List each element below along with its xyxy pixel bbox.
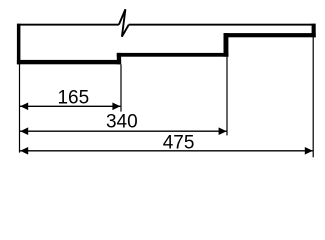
arrowhead 340 left <box>20 127 28 135</box>
dimension line 475 <box>20 150 313 152</box>
arrowhead 165 right <box>112 103 120 111</box>
arrowhead 475 left <box>20 147 28 155</box>
dimension line 340 <box>20 130 227 132</box>
extension line right <box>313 37 314 157</box>
arrowhead 475 right <box>305 147 313 155</box>
bottom thick line segment 1 <box>17 60 121 64</box>
arrowhead 340 right <box>219 127 227 135</box>
extension line at step 1 <box>120 64 121 111</box>
step 2 vertical thick <box>224 33 229 57</box>
svg-text:475: 475 <box>163 132 195 153</box>
right edge thick bar <box>312 24 316 38</box>
break symbol <box>119 9 129 36</box>
top thin line left segment <box>20 24 119 26</box>
top thin line right segment <box>129 24 312 26</box>
dimension line 165 <box>20 105 121 107</box>
extension line left <box>19 64 20 152</box>
step 1 vertical thick <box>117 53 121 64</box>
extension line at step 2 <box>226 57 227 136</box>
bottom thick line segment 2 <box>117 53 229 57</box>
bottom thick line segment 3 <box>224 33 316 37</box>
arrowhead 165 left <box>20 103 28 111</box>
svg-text:165: 165 <box>57 88 89 109</box>
svg-text:340: 340 <box>106 112 138 133</box>
left edge thick bar <box>17 24 21 65</box>
